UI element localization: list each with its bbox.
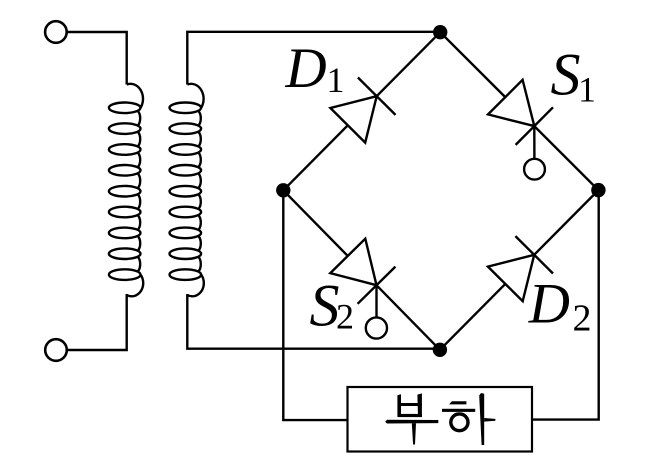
- glyph 하: a vertical: [479, 393, 484, 445]
- wire arm left-bottom: [283, 190, 440, 349]
- thyristor S1: [488, 80, 553, 180]
- svg-text:1: 1: [327, 60, 345, 100]
- glyph 부: u stem: [412, 423, 416, 444]
- svg-text:2: 2: [573, 297, 592, 339]
- terminal bottom-left: [45, 339, 67, 361]
- svg-text:S: S: [551, 42, 581, 108]
- glyph 부: bieup left vertical: [397, 394, 401, 417]
- wire secondary bottom: [187, 294, 440, 349]
- wire arm bottom-right: [440, 190, 599, 350]
- glyph 부: bieup right vertical: [417, 393, 422, 417]
- wire arm left-top: [283, 32, 440, 190]
- diode D1: [330, 78, 395, 143]
- inductor L1 primary coil: [109, 84, 143, 297]
- node left: [276, 183, 290, 197]
- thyristor S2: [330, 239, 395, 339]
- label D2: [528, 273, 592, 340]
- wire load left: [283, 190, 347, 420]
- glyph 하: hieut top tick: [449, 401, 466, 404]
- node bottom: [433, 343, 447, 357]
- wire secondary top: [187, 32, 440, 85]
- load label 부하 (drawn glyphs): [385, 393, 495, 445]
- inductor L2 secondary coil: [170, 84, 204, 297]
- svg-text:D: D: [285, 37, 327, 100]
- wire load right: [532, 190, 599, 420]
- glyph 부: u horizontal bar: [385, 420, 438, 424]
- glyph 부: bieup middle bar: [398, 403, 422, 406]
- glyph 하: a tick: [484, 418, 495, 422]
- svg-text:1: 1: [578, 70, 596, 110]
- svg-text:S: S: [310, 272, 340, 338]
- svg-text:D: D: [528, 273, 570, 336]
- terminal top-left: [45, 21, 67, 43]
- label S2: [310, 272, 355, 338]
- label D1: [285, 37, 345, 100]
- load box: [348, 387, 533, 452]
- glyph 부: bieup bottom bar: [398, 414, 422, 417]
- wire primary bottom: [67, 294, 127, 350]
- glyph 하: hieut ring: [449, 412, 470, 432]
- node top: [433, 25, 447, 39]
- glyph 하: hieut bar: [442, 409, 475, 412]
- wire primary top: [67, 32, 127, 85]
- diode D2: [488, 236, 553, 301]
- wire arm top-right: [440, 32, 598, 190]
- svg-text:2: 2: [336, 297, 354, 337]
- label S1: [551, 42, 597, 110]
- node right: [591, 183, 605, 197]
